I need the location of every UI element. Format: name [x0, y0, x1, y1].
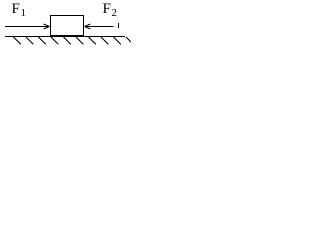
ground hatching (diagonal strokes below ground line) [14, 37, 132, 45]
ground line [5, 36, 125, 38]
svg-text:1: 1 [21, 7, 27, 19]
force arrow F1 (points right at block left side) [5, 24, 50, 29]
force label F1 [12, 1, 27, 19]
svg-text:F: F [103, 1, 111, 17]
svg-text:F: F [12, 1, 20, 17]
background [0, 0, 131, 58]
stray tick near F2 arrow tail [118, 23, 120, 28]
svg-text:2: 2 [112, 7, 118, 19]
force arrow F2 (points left at block right side) [85, 24, 114, 29]
block (rectangle on ground) [51, 16, 84, 36]
force label F2 [103, 1, 118, 19]
